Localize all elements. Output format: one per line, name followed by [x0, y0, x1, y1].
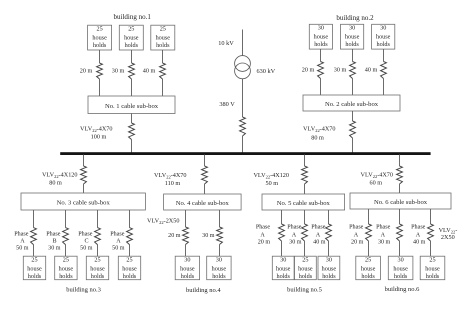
load box building5-1 30 households	[272, 256, 294, 280]
svg-text:30: 30	[184, 257, 190, 264]
svg-text:house: house	[322, 265, 337, 272]
svg-text:building no.2: building no.2	[336, 14, 374, 22]
No. 1 cable sub-box	[88, 96, 175, 114]
load box building6-1 25 households	[356, 256, 381, 280]
svg-text:30: 30	[398, 257, 404, 264]
wire group3 branch 1 lower	[33, 245, 35, 257]
wire building1 branch 1 upper	[99, 50, 101, 63]
label 20 m (group4 branch 1)	[168, 233, 181, 239]
wire building1 branch 2 lower	[131, 79, 133, 96]
wire building1 branch 3 upper	[162, 50, 164, 63]
load box building6-3 25 households	[420, 256, 445, 280]
svg-text:25: 25	[97, 26, 103, 33]
svg-text:25: 25	[365, 257, 371, 264]
wire sub-box5 branch 3 upper	[328, 210, 330, 224]
svg-text:house: house	[314, 34, 329, 41]
resistor group3 branch 1 (50 m A)	[31, 228, 37, 245]
label VLV22-4X70 (feeder 6)	[361, 172, 393, 180]
resistor group3 branch 2 (30 m B)	[63, 228, 69, 245]
label 80 m (feeder 3)	[49, 180, 62, 187]
svg-text:Phase: Phase	[311, 224, 326, 230]
svg-text:80 m: 80 m	[49, 180, 62, 187]
label Phase A 40 m (group6 branch 3)	[411, 224, 426, 245]
resistor building2 branch 1 (20 m line)	[318, 62, 324, 79]
load box building1-1 25 households	[88, 25, 112, 50]
resistor feeder VLV22-4X120 80 m	[81, 166, 87, 184]
svg-text:holds: holds	[28, 273, 42, 280]
wire sub-box3 branch 2 upper	[65, 210, 67, 228]
resistor group5 branch 3 (40 m phase A)	[326, 224, 332, 241]
load box building3-1 25 households	[23, 256, 45, 280]
svg-text:holds: holds	[276, 273, 290, 280]
svg-text:50 m: 50 m	[266, 180, 279, 187]
label 60 m (feeder 6)	[370, 180, 383, 187]
svg-text:110 m: 110 m	[165, 180, 181, 187]
building no.5 title	[287, 287, 322, 294]
svg-text:VLV22-4X70: VLV22-4X70	[154, 172, 186, 180]
resistor feeder VLV22-4X70 60 m	[397, 166, 403, 184]
svg-text:VLV22-4X120: VLV22-4X120	[42, 172, 78, 180]
label VLV22-4X70 (feeder 2)	[303, 125, 335, 133]
resistor group5 branch 2 (30 m phase A)	[302, 224, 308, 241]
wire building2 branch 1 upper	[320, 49, 322, 61]
load box building5-2 25 households	[295, 256, 317, 280]
svg-text:20 m: 20 m	[302, 67, 315, 74]
svg-text:630 kV: 630 kV	[257, 68, 276, 75]
label Phase A 50 m (group3 branch 4)	[110, 232, 125, 252]
label VLV22-2X50 (group 4 branches)	[147, 218, 179, 226]
svg-text:A: A	[20, 239, 25, 245]
resistor group3 branch 4 (50 m A)	[127, 228, 133, 245]
load box building3-2 25 households	[55, 256, 77, 280]
svg-text:holds: holds	[299, 273, 313, 280]
wire bus to feeder6 resistor	[399, 155, 401, 167]
svg-text:building no.4: building no.4	[186, 287, 221, 294]
svg-text:A: A	[354, 232, 359, 238]
svg-text:No. 1 cable sub-box: No. 1 cable sub-box	[105, 103, 159, 110]
svg-text:30: 30	[318, 25, 324, 32]
svg-text:50 m: 50 m	[80, 246, 93, 252]
svg-text:A: A	[116, 239, 121, 245]
load box building4-2 30 households	[207, 256, 231, 280]
svg-text:25: 25	[94, 257, 100, 264]
svg-text:VLV22-4X70: VLV22-4X70	[303, 125, 335, 133]
resistor group4 branch 2 (30 m)	[217, 227, 223, 245]
label 100 m (feeder 1)	[91, 134, 107, 141]
wire group3 branch 3 lower	[97, 245, 99, 257]
main 380 V bus bar	[60, 152, 430, 155]
svg-text:30 m: 30 m	[202, 233, 215, 239]
svg-text:10 kV: 10 kV	[218, 40, 234, 47]
label Phase A 20 m (group6 branch 1)	[349, 224, 364, 245]
wire group6 branch 2 lower	[399, 241, 401, 256]
svg-text:house: house	[27, 265, 42, 272]
load box building3-4 25 households	[118, 256, 140, 280]
label 50 m (feeder 5)	[266, 180, 279, 187]
svg-text:building no.6: building no.6	[385, 286, 420, 293]
svg-text:VLV22-2X50: VLV22-2X50	[147, 218, 179, 226]
svg-text:holds: holds	[125, 42, 139, 49]
svg-text:holds: holds	[181, 273, 195, 280]
svg-text:30: 30	[380, 25, 386, 32]
label VLV22-4X70 (feeder 4)	[154, 172, 186, 180]
wire group6 branch 3 lower	[430, 241, 432, 256]
svg-text:holds: holds	[212, 273, 226, 280]
svg-text:house: house	[345, 34, 360, 41]
wire bus to feeder5 resistor	[304, 155, 306, 167]
svg-text:Phase: Phase	[349, 224, 364, 230]
wire sub-box3 branch 4 upper	[129, 210, 131, 228]
wire sub-box2 to feeder resistor	[352, 111, 354, 121]
wire sub-box4 branch 2 upper	[219, 210, 221, 227]
building no.4 title	[186, 287, 221, 294]
wire sub-box6 branch 1 upper	[368, 209, 370, 224]
svg-text:building no.1: building no.1	[114, 13, 152, 21]
label 80 m (feeder 2)	[311, 135, 324, 142]
svg-text:Phase: Phase	[110, 232, 125, 238]
resistor feeder VLV22-4X120 50 m	[302, 166, 308, 184]
svg-text:60 m: 60 m	[370, 180, 383, 187]
svg-text:No. 3 cable sub-box: No. 3 cable sub-box	[57, 200, 111, 207]
label Phase C 50 m (group3 branch 3)	[78, 232, 93, 252]
svg-text:No. 2 cable sub-box: No. 2 cable sub-box	[325, 101, 379, 108]
svg-text:25: 25	[128, 26, 134, 33]
label Phase A 30 m (group5 branch 2)	[287, 224, 302, 245]
svg-text:VLV22-4X70: VLV22-4X70	[361, 172, 393, 180]
wire feeder6 to sub-box6	[399, 184, 401, 193]
svg-text:80 m: 80 m	[311, 135, 324, 142]
wire building1 branch 2 upper	[131, 50, 133, 63]
load box building2-1 30 households	[309, 24, 332, 49]
label VLV22-2X50 (group 6 branch)	[439, 227, 458, 241]
resistor feeder VLV22-4X70 80 m	[350, 121, 356, 138]
svg-text:house: house	[124, 34, 139, 41]
label Phase A 50 m (group3 branch 1)	[14, 232, 29, 252]
wire sub-box3 branch 3 upper	[97, 210, 99, 228]
svg-text:30 m: 30 m	[289, 239, 302, 245]
wire transformer secondary down	[242, 79, 244, 117]
svg-text:house: house	[298, 265, 313, 272]
wire sub-box5 branch 1 upper	[281, 210, 283, 224]
wire feeder3 to sub-box3	[83, 184, 85, 193]
No. 5 cable sub-box	[262, 194, 345, 210]
wire group4 branch 1 lower	[185, 245, 187, 257]
wire group6 branch 1 lower	[368, 241, 370, 256]
No. 6 cable sub-box	[350, 193, 451, 209]
svg-text:A: A	[292, 232, 297, 238]
wire bus to feeder4 resistor	[204, 155, 206, 167]
svg-text:holds: holds	[314, 41, 328, 48]
svg-text:30 m: 30 m	[334, 67, 347, 74]
svg-text:house: house	[122, 265, 137, 272]
wire feeder5 to sub-box5	[304, 184, 306, 194]
svg-text:20 m: 20 m	[168, 233, 181, 239]
resistor group6 branch 1 (20 m phase A)	[366, 224, 372, 241]
label 20 m (building2 branch 1)	[302, 67, 315, 74]
label 30 m (building1 branch 2)	[112, 68, 125, 75]
svg-text:A: A	[316, 232, 321, 238]
svg-text:Phase: Phase	[14, 232, 29, 238]
load box building1-3 25 households	[151, 25, 175, 50]
svg-text:holds: holds	[91, 273, 105, 280]
svg-text:50 m: 50 m	[112, 246, 125, 252]
svg-text:20 m: 20 m	[80, 68, 93, 75]
svg-text:house: house	[212, 265, 227, 272]
svg-text:25: 25	[126, 257, 132, 264]
svg-text:B: B	[52, 239, 56, 245]
svg-text:Phase: Phase	[411, 224, 426, 230]
svg-text:holds: holds	[426, 273, 440, 280]
svg-text:30 m: 30 m	[112, 68, 125, 75]
building no.3 title	[66, 287, 101, 294]
svg-text:40 m: 40 m	[313, 239, 326, 245]
No. 4 cable sub-box	[164, 194, 242, 210]
svg-text:30: 30	[349, 25, 355, 32]
label 630 kV (transformer rating)	[257, 68, 276, 75]
svg-text:house: house	[92, 34, 107, 41]
transformer T1 secondary winding	[235, 63, 251, 79]
svg-text:40 m: 40 m	[365, 67, 378, 74]
resistor feeder VLV22-4X70 110 m	[202, 166, 208, 184]
load box building2-3 30 households	[372, 24, 395, 49]
svg-text:VLV22-4X70: VLV22-4X70	[80, 126, 112, 134]
resistor building1 branch 3 (40 m line)	[160, 63, 166, 79]
resistor building2 branch 2 (30 m line)	[350, 62, 356, 79]
svg-text:holds: holds	[59, 273, 73, 280]
load box building6-2 30 households	[388, 256, 413, 280]
svg-text:Phase: Phase	[46, 232, 61, 238]
svg-text:100 m: 100 m	[91, 134, 107, 141]
wire feeder2 to bus	[352, 138, 354, 153]
svg-text:house: house	[59, 265, 74, 272]
svg-text:holds: holds	[156, 42, 170, 49]
label 30 m (building2 branch 2)	[334, 67, 347, 74]
svg-text:holds: holds	[322, 273, 336, 280]
svg-text:holds: holds	[394, 273, 408, 280]
resistor feeder VLV22-4X70 100 m	[129, 123, 135, 140]
wire building2 branch 1 lower	[320, 79, 322, 96]
building no.1 title	[114, 13, 152, 21]
label 40 m (building1 branch 3)	[143, 68, 156, 75]
svg-text:40 m: 40 m	[413, 239, 426, 245]
label Phase B 30 m (group3 branch 2)	[46, 232, 61, 252]
svg-text:house: house	[425, 265, 440, 272]
wire 10 kV supply	[242, 30, 244, 56]
load box building2-2 30 households	[341, 24, 364, 49]
wire building1 branch 1 lower	[99, 79, 101, 96]
svg-text:No. 6 cable sub-box: No. 6 cable sub-box	[374, 199, 428, 206]
label VLV22-4X70 (feeder 1)	[80, 126, 112, 134]
building no.6 title	[385, 286, 420, 293]
resistor transformer feeder	[240, 117, 246, 136]
svg-text:30: 30	[216, 257, 222, 264]
svg-text:Phase: Phase	[256, 224, 271, 230]
label Phase A 20 m (group5 branch 1)	[256, 224, 271, 245]
wire group4 branch 2 lower	[219, 245, 221, 257]
svg-text:holds: holds	[93, 42, 107, 49]
svg-text:25: 25	[63, 257, 69, 264]
resistor building2 branch 3 (40 m line)	[381, 62, 387, 79]
svg-text:C: C	[84, 239, 88, 245]
svg-text:holds: holds	[376, 41, 390, 48]
load box building1-2 25 households	[119, 25, 143, 50]
svg-text:house: house	[90, 265, 105, 272]
label 380 V	[219, 101, 235, 108]
svg-text:Phase: Phase	[376, 224, 391, 230]
svg-text:VLV22-4X120: VLV22-4X120	[253, 172, 289, 180]
wire transformer feeder to bus	[242, 136, 244, 153]
label 20 m (building1 branch 1)	[80, 68, 93, 75]
wire sub-box6 branch 3 upper	[430, 209, 432, 224]
svg-text:No. 4 cable sub-box: No. 4 cable sub-box	[176, 200, 230, 207]
label 30 m (group4 branch 2)	[202, 233, 215, 239]
svg-text:holds: holds	[361, 273, 375, 280]
svg-text:20 m: 20 m	[351, 239, 364, 245]
svg-text:building no.3: building no.3	[66, 287, 101, 294]
load box building4-1 30 households	[175, 256, 199, 280]
resistor group3 branch 3 (50 m C)	[95, 228, 101, 245]
svg-text:30 m: 30 m	[378, 239, 391, 245]
svg-text:house: house	[376, 34, 391, 41]
svg-text:25: 25	[31, 257, 37, 264]
svg-text:25: 25	[160, 26, 166, 33]
svg-text:A: A	[416, 232, 421, 238]
wire building1 branch 3 lower	[162, 79, 164, 96]
wire building2 branch 2 upper	[352, 49, 354, 61]
svg-text:Phase: Phase	[78, 232, 93, 238]
svg-text:house: house	[156, 34, 171, 41]
building no.2 title	[336, 14, 374, 22]
resistor building1 branch 2 (30 m line)	[129, 63, 135, 79]
svg-text:25: 25	[429, 257, 435, 264]
wire sub-box1 to feeder resistor	[131, 114, 133, 124]
svg-text:holds: holds	[123, 273, 137, 280]
No. 2 cable sub-box	[303, 95, 400, 111]
resistor group6 branch 2 (30 m phase A)	[397, 224, 403, 241]
label 10 kV	[218, 40, 234, 47]
svg-text:20 m: 20 m	[258, 239, 271, 245]
wire sub-box3 branch 1 upper	[33, 210, 35, 228]
svg-text:No. 5 cable sub-box: No. 5 cable sub-box	[277, 200, 331, 207]
resistor group6 branch 3 (40 m phase A)	[428, 224, 434, 241]
resistor group4 branch 1 (20 m)	[183, 227, 189, 245]
wire group5 branch 1 lower	[281, 241, 283, 256]
label 40 m (building2 branch 3)	[365, 67, 378, 74]
wire group3 branch 4 lower	[129, 245, 131, 257]
svg-text:380 V: 380 V	[219, 101, 235, 108]
svg-text:25: 25	[302, 257, 308, 264]
resistor building1 branch 1 (20 m line)	[97, 63, 103, 79]
wire building2 branch 3 lower	[383, 79, 385, 96]
wire sub-box5 branch 2 upper	[304, 210, 306, 224]
svg-text:A: A	[260, 232, 265, 238]
label Phase A 40 m (group5 branch 3)	[311, 224, 326, 245]
svg-text:holds: holds	[345, 41, 359, 48]
svg-text:building no.5: building no.5	[287, 287, 322, 294]
svg-text:house: house	[361, 265, 376, 272]
svg-text:50 m: 50 m	[16, 246, 29, 252]
transformer T1 primary winding	[235, 56, 251, 72]
svg-text:A: A	[381, 232, 386, 238]
svg-text:house: house	[276, 265, 291, 272]
svg-text:30 m: 30 m	[48, 246, 61, 252]
wire group5 branch 2 lower	[304, 241, 306, 256]
label 110 m (feeder 4)	[165, 180, 181, 187]
wire sub-box6 branch 2 upper	[399, 209, 401, 224]
wire group3 branch 2 lower	[65, 245, 67, 257]
No. 3 cable sub-box	[21, 193, 145, 210]
wire group5 branch 3 lower	[328, 241, 330, 256]
svg-text:house: house	[180, 265, 195, 272]
load box building3-3 25 households	[86, 256, 108, 280]
wire building2 branch 3 upper	[383, 49, 385, 61]
label VLV22-4X120 (feeder 3)	[42, 172, 78, 180]
label VLV22-4X120 (feeder 5)	[253, 172, 289, 180]
svg-text:40 m: 40 m	[143, 68, 156, 75]
wire building2 branch 2 lower	[352, 79, 354, 96]
label Phase A 30 m (group6 branch 2)	[376, 224, 391, 245]
svg-text:30: 30	[326, 257, 332, 264]
svg-text:house: house	[393, 265, 408, 272]
svg-text:Phase: Phase	[287, 224, 302, 230]
svg-text:30: 30	[280, 257, 286, 264]
wire bus to feeder3 resistor	[83, 155, 85, 167]
wire feeder1 to bus	[131, 140, 133, 154]
svg-text:2X50: 2X50	[441, 234, 455, 241]
load box building5-3 30 households	[318, 256, 340, 280]
wire feeder4 to sub-box4	[204, 184, 206, 194]
resistor group5 branch 1 (20 m phase A)	[279, 224, 285, 241]
wire sub-box4 branch 1 upper	[185, 210, 187, 227]
